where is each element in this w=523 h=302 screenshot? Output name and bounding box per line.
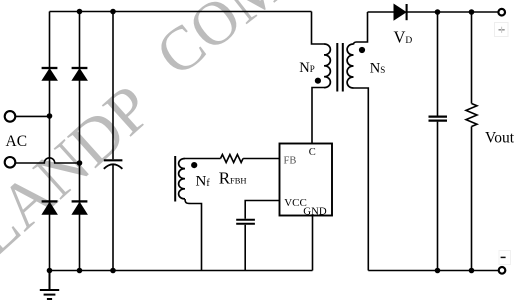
wire: VCC pin lead xyxy=(245,201,280,219)
label - (output polarity) xyxy=(499,251,511,265)
wire: top rail (primary side) xyxy=(50,11,312,13)
resistor RFBH xyxy=(221,155,244,163)
wire: primary bottom lead to pin C xyxy=(312,88,324,144)
junction: top rail / output cap xyxy=(435,9,441,15)
transformer core xyxy=(337,43,343,92)
junction: bottom rail / right leg xyxy=(77,268,83,274)
wire: primary top lead xyxy=(312,12,325,45)
capacitor: VCC bypass xyxy=(236,220,255,224)
svg-text:NS: NS xyxy=(370,61,386,77)
wire: bridge right leg xyxy=(79,12,81,271)
svg-text:GND: GND xyxy=(303,206,327,218)
junction: top rail / bulk cap xyxy=(110,9,116,15)
junction: AC2 / bridge right leg xyxy=(77,160,83,166)
junction: bottom rail / load resistor xyxy=(469,268,475,274)
wire: bottom rail (secondary side) xyxy=(368,270,499,272)
wire: load resistor top leg xyxy=(471,12,473,104)
wire: secondary top lead xyxy=(354,12,368,45)
transformer aux winding Nf core xyxy=(174,156,176,202)
svg-text:LANDP: LANDP xyxy=(0,72,166,270)
wire: GND pin lead xyxy=(312,216,314,271)
svg-text:AC: AC xyxy=(6,133,28,150)
terminal: output - xyxy=(499,267,506,274)
svg-text:FB: FB xyxy=(284,156,297,167)
terminal: output + xyxy=(498,9,505,16)
transformer aux winding Nf xyxy=(179,159,185,199)
terminal: AC line 2 xyxy=(5,157,16,168)
wire: output cap bottom leg xyxy=(437,122,439,271)
IC controller U1 xyxy=(280,144,333,216)
diode bridge D4 lower-right xyxy=(72,201,88,214)
svg-text:NP: NP xyxy=(299,60,315,76)
junction: AC1 / bridge left leg xyxy=(47,113,53,119)
svg-text:Vout: Vout xyxy=(485,130,515,147)
junction: bottom rail / left leg xyxy=(47,268,53,274)
wire: top rail (secondary side) xyxy=(368,11,499,13)
wire: Nf top lead to RFBH xyxy=(185,158,221,160)
wire: output cap top leg xyxy=(437,12,439,116)
capacitor: output xyxy=(429,117,448,121)
label + (output polarity) xyxy=(495,23,509,37)
svg-text:C: C xyxy=(309,147,316,158)
wire: bridge left leg xyxy=(49,12,51,271)
junction: top rail / load resistor xyxy=(469,9,475,15)
svg-text:Nf: Nf xyxy=(196,174,211,190)
junction: bottom rail / bulk cap xyxy=(110,268,116,274)
phase dot (primary) xyxy=(315,78,321,84)
resistor: load xyxy=(466,104,477,127)
svg-text:RFBH: RFBH xyxy=(219,168,247,187)
phase dot (aux Nf) xyxy=(191,162,197,168)
wire: Nf bottom lead xyxy=(185,199,202,271)
wire: VCC cap bottom leg xyxy=(244,225,246,271)
wire: load resistor bottom leg xyxy=(471,127,473,271)
wire: AC line1 to bridge xyxy=(16,115,50,117)
wire: secondary return xyxy=(354,88,369,271)
diode bridge D1 upper-left xyxy=(42,68,58,80)
transformer primary winding Np xyxy=(324,44,330,88)
junction: top rail / bridge right leg xyxy=(77,9,83,15)
junction: bottom rail / output cap xyxy=(435,268,441,274)
terminal: AC line 1 xyxy=(5,111,16,122)
transformer secondary winding Ns xyxy=(347,44,353,88)
wire: bulk cap top leg xyxy=(112,12,114,160)
capacitor: input bulk xyxy=(104,160,123,169)
diode bridge D3 lower-left xyxy=(42,201,58,214)
wire: AC line2 to bridge (hop over left leg) xyxy=(16,158,80,163)
diode bridge D2 upper-right xyxy=(72,68,88,80)
ground xyxy=(40,271,59,300)
diode VD xyxy=(394,4,407,20)
wire: bottom rail (primary side) xyxy=(50,270,313,272)
wire: bulk cap bottom leg xyxy=(112,164,114,270)
phase dot (secondary) xyxy=(359,47,365,53)
svg-text:COM: COM xyxy=(144,0,297,89)
svg-text:VD: VD xyxy=(394,28,413,47)
wire: RFBH to FB pin xyxy=(243,158,280,160)
